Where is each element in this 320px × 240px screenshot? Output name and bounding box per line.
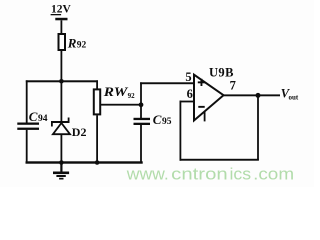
wire top rail to RW92 [96,80,98,89]
capacitor C94 [17,109,47,130]
svg-text:94: 94 [38,114,48,124]
node A junction dot [59,79,64,84]
wire op-amp output to Vout [224,94,281,96]
potentiometer RW92 [94,84,135,114]
wire 12V to R92 [61,20,63,33]
svg-text:95: 95 [162,117,172,127]
wire pin 6 stub [180,101,195,103]
svg-text:.com: .com [253,165,294,184]
svg-text:6: 6 [187,87,193,101]
svg-text:U9B: U9B [209,65,234,79]
op-amp U9B [194,65,234,121]
svg-text:out: out [289,93,299,101]
wire C94 to ground rail [26,130,28,164]
ground rail [26,161,143,163]
svg-text:RW: RW [103,84,129,99]
12V supply terminal [51,4,72,21]
wire C95 to ground rail [140,125,142,163]
resistor R92 [59,34,87,50]
junction dot output node [256,93,261,98]
wire left branch down to C94 [26,80,28,124]
wire RW92 wiper to node B [101,104,142,106]
svg-text:92: 92 [128,92,136,100]
ground symbol [53,164,69,180]
svg-text:C: C [153,112,162,127]
pin 6 label [187,87,193,101]
svg-text:www.: www. [126,165,169,184]
junction dot ground node under RW92 [95,160,100,165]
pin 7 label [230,79,236,93]
node B junction dot [139,102,144,107]
svg-text:12V: 12V [51,4,72,16]
wire D2 to ground rail [61,134,63,163]
wire node B up and right to op-amp pin 5 [140,82,194,105]
wire RW92 to ground rail [96,115,98,162]
svg-text:5: 5 [185,70,191,84]
wire node A down to D2 [61,82,63,122]
svg-text:ics: ics [230,165,252,184]
svg-text:92: 92 [77,40,87,50]
svg-text:D2: D2 [72,125,87,139]
zener diode D2 [51,118,86,140]
svg-text:7: 7 [230,79,236,93]
node Vout label [281,86,299,101]
wire feedback loop output to pin 6 [180,95,259,160]
watermark www.cntronics.com [126,165,294,184]
wire top rail node A [26,80,98,82]
svg-text:R: R [67,35,77,50]
capacitor C95 [134,105,172,127]
pin 5 label [185,70,191,84]
wire R92 to node A [61,51,63,81]
svg-text:cntron: cntron [171,165,228,184]
junction dot ground node under D2 [59,160,64,165]
svg-text:C: C [29,109,38,124]
